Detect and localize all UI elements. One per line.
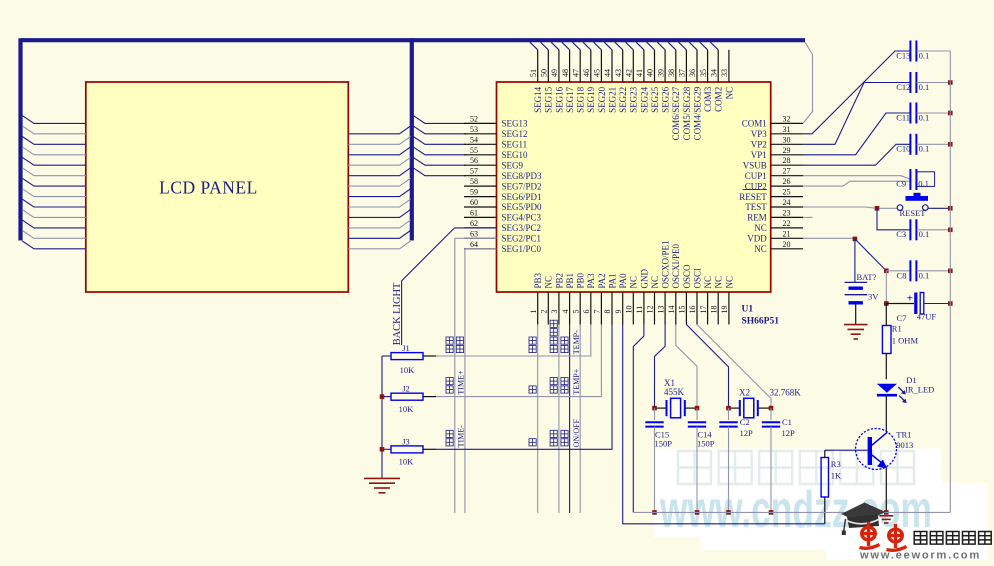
junction J2 left xyxy=(380,394,385,399)
wire VDD pin21 to battery node xyxy=(803,237,855,239)
svg-text:9013: 9013 xyxy=(896,440,913,450)
watermark white panel xyxy=(654,449,942,538)
capacitor C2 12P xyxy=(719,421,737,423)
svg-text:61: 61 xyxy=(470,208,478,217)
svg-text:13: 13 xyxy=(656,306,665,314)
ground at emitter rail xyxy=(879,515,893,517)
wire REM pin23 stub xyxy=(803,216,813,218)
svg-text:RESET: RESET xyxy=(739,192,767,202)
resistor R1 1 OHM xyxy=(882,326,891,354)
svg-text:1 OHM: 1 OHM xyxy=(892,336,919,346)
middle vertical bus xyxy=(410,38,414,240)
capacitor C1 12P xyxy=(762,421,780,423)
svg-text:SEG16: SEG16 xyxy=(554,86,564,113)
resistor J2 10K xyxy=(391,393,423,400)
svg-text:SEG19: SEG19 xyxy=(586,86,596,113)
svg-text:16: 16 xyxy=(688,306,697,314)
junction X2 left xyxy=(726,406,731,411)
svg-text:57: 57 xyxy=(470,167,478,176)
capacitor C15 150P xyxy=(645,421,663,423)
svg-text:43: 43 xyxy=(614,69,623,77)
junction C8 node xyxy=(884,269,889,274)
svg-text:R1: R1 xyxy=(892,324,902,334)
wire C7 to right rail xyxy=(924,303,951,305)
junction C2/rail xyxy=(726,510,731,515)
wire C8 node to C8 xyxy=(886,270,910,272)
svg-text:9: 9 xyxy=(614,310,623,314)
junction C7/rail xyxy=(948,301,953,306)
svg-text:PA2: PA2 xyxy=(597,273,607,288)
LCD panel U2 xyxy=(86,82,349,292)
left vertical bus xyxy=(18,38,22,240)
svg-text:20: 20 xyxy=(783,240,791,249)
right vertical rail xyxy=(949,51,951,512)
svg-text:58: 58 xyxy=(470,177,478,186)
svg-text:45: 45 xyxy=(593,69,602,77)
svg-text:44: 44 xyxy=(603,69,612,77)
svg-text:SEG20: SEG20 xyxy=(597,86,607,113)
wire R3 top to base xyxy=(824,450,826,457)
svg-text:SEG24: SEG24 xyxy=(639,86,649,113)
crystal X2 32.768K xyxy=(729,398,772,418)
svg-text:SEG14: SEG14 xyxy=(533,86,543,113)
wire key row1 from J1 to pin6 xyxy=(436,325,591,357)
wire pin64 column xyxy=(465,249,497,513)
junction C11/rail xyxy=(948,111,953,116)
svg-text:21: 21 xyxy=(783,229,791,238)
wire reset node down to C3 xyxy=(877,208,910,230)
capacitor C8 0.1 xyxy=(909,260,911,281)
svg-text:SEG21: SEG21 xyxy=(607,87,617,113)
svg-text:TEMP-: TEMP- xyxy=(572,330,581,354)
svg-text:TEST: TEST xyxy=(745,202,767,212)
svg-text:42: 42 xyxy=(625,69,634,77)
svg-text:54: 54 xyxy=(470,135,478,144)
battery BAT? 3V xyxy=(845,282,868,302)
junction J3 left xyxy=(380,447,385,452)
svg-text:32: 32 xyxy=(783,114,791,123)
wire BACK_LIGHT from pin62 xyxy=(402,228,497,345)
svg-text:SEG8/PD3: SEG8/PD3 xyxy=(502,171,543,181)
resistor J1 10K xyxy=(391,353,423,360)
svg-text:SEG26: SEG26 xyxy=(661,86,671,113)
capacitor C3 0.1 xyxy=(909,219,911,240)
logo chongchong red characters xyxy=(860,522,907,550)
svg-text:27: 27 xyxy=(783,167,791,176)
svg-text:SEG11: SEG11 xyxy=(502,140,528,150)
op-amp U1 SH66P51 body xyxy=(497,82,771,292)
svg-text:47: 47 xyxy=(571,69,580,77)
svg-text:23: 23 xyxy=(783,208,791,217)
U1 top pin names SEG14-NC xyxy=(533,86,734,140)
svg-text:PB1: PB1 xyxy=(565,273,575,289)
svg-text:SEG17: SEG17 xyxy=(565,86,575,113)
wire GND pin11 jog down to ground rail xyxy=(633,325,644,513)
wire pin5 PB0 column xyxy=(579,325,581,514)
wire J3 right xyxy=(423,448,436,450)
svg-text:35: 35 xyxy=(699,69,708,77)
wire VSUB pin28 to C10 xyxy=(803,144,910,165)
ground below J3 xyxy=(364,477,400,479)
svg-text:30: 30 xyxy=(783,135,791,144)
svg-text:12P: 12P xyxy=(782,428,796,438)
svg-text:NC: NC xyxy=(724,87,734,100)
svg-text:PA1: PA1 xyxy=(607,273,617,288)
top power bus xyxy=(21,38,806,42)
svg-text:25: 25 xyxy=(783,188,791,197)
wire C8 to right rail xyxy=(917,270,951,272)
junction reset node xyxy=(875,206,880,211)
junction C7 node xyxy=(884,301,889,306)
svg-text:5: 5 xyxy=(571,310,580,314)
svg-text:NC: NC xyxy=(724,276,734,289)
svg-text:SEG12: SEG12 xyxy=(502,129,528,139)
svg-text:22: 22 xyxy=(783,219,791,228)
svg-text:OSCXI/PE0: OSCXI/PE0 xyxy=(671,243,681,288)
svg-text:C12: C12 xyxy=(896,82,910,92)
svg-text:48: 48 xyxy=(561,69,570,77)
svg-text:PB3: PB3 xyxy=(533,272,543,288)
svg-text:SEG1/PC0: SEG1/PC0 xyxy=(502,244,542,254)
wire X1 left down to C15 xyxy=(654,408,656,420)
net labels key row2 (oxygen/TIME+/on/economy/updown/TEMP+) xyxy=(446,368,581,394)
svg-text:60: 60 xyxy=(470,198,478,207)
resistor J3 10K xyxy=(391,446,423,453)
svg-text:SEG13: SEG13 xyxy=(502,119,529,129)
wire TEST pin24 to reset button xyxy=(803,207,897,208)
svg-text:NC: NC xyxy=(754,244,767,254)
resistor R3 1K xyxy=(821,458,828,498)
svg-text:PB0: PB0 xyxy=(576,272,586,288)
capacitor C13 0.1 xyxy=(909,41,911,62)
svg-text:TIME-: TIME- xyxy=(456,425,465,448)
wire X1 right down to C14 xyxy=(696,408,698,420)
junction VDD node xyxy=(853,237,858,242)
svg-text:VDD: VDD xyxy=(747,234,767,244)
wire VP3 pin31 to C13 xyxy=(803,51,910,134)
svg-text:64: 64 xyxy=(470,240,478,249)
svg-text:455K: 455K xyxy=(664,387,685,397)
junction C14/rail xyxy=(695,510,700,515)
svg-text:TIME+: TIME+ xyxy=(456,370,465,395)
svg-text:31: 31 xyxy=(783,125,791,134)
wire pin3 PB2 column xyxy=(558,325,560,514)
svg-text:SEG25: SEG25 xyxy=(650,86,660,113)
U1 bottom pin names PB3-NC xyxy=(533,240,734,288)
svg-text:3V: 3V xyxy=(868,291,879,301)
junction C3/rail xyxy=(948,228,953,233)
svg-text:29: 29 xyxy=(783,146,791,155)
svg-text:SEG4/PC3: SEG4/PC3 xyxy=(502,213,542,223)
junction C1/rail xyxy=(769,510,774,515)
svg-text:+: + xyxy=(907,293,913,305)
wire C11 to right rail xyxy=(917,112,951,114)
svg-text:0.1: 0.1 xyxy=(918,179,929,189)
diode D1 IR_LED xyxy=(877,384,907,403)
svg-text:15: 15 xyxy=(678,306,687,314)
svg-text:SEG10: SEG10 xyxy=(502,150,529,160)
svg-text:PA3: PA3 xyxy=(586,273,596,289)
svg-text:COM1: COM1 xyxy=(742,119,767,129)
svg-text:14: 14 xyxy=(667,306,676,314)
svg-text:C8: C8 xyxy=(897,270,907,280)
svg-text:19: 19 xyxy=(720,306,729,314)
svg-text:OSCI: OSCI xyxy=(692,268,702,289)
svg-text:8: 8 xyxy=(603,310,612,314)
wire X2 left down to C2 xyxy=(728,408,730,420)
capacitor C9 0.1 xyxy=(909,169,911,190)
junction C12/rail xyxy=(948,80,953,85)
svg-text:www.eeworm.com: www.eeworm.com xyxy=(859,549,981,561)
svg-text:COM6/SEG27: COM6/SEG27 xyxy=(671,86,681,140)
svg-text:C1: C1 xyxy=(782,417,792,427)
capacitor C14 150P xyxy=(688,421,706,423)
svg-text:SEG22: SEG22 xyxy=(618,87,628,113)
wire C14 to ground rail xyxy=(696,427,698,513)
junction X2 right xyxy=(769,406,774,411)
svg-text:150P: 150P xyxy=(697,439,715,449)
svg-text:COM3: COM3 xyxy=(703,86,713,112)
svg-text:12P: 12P xyxy=(740,428,754,438)
wire COM1 pin32 to top bus xyxy=(803,42,813,123)
svg-text:2: 2 xyxy=(540,310,549,314)
logo text dianzi xiazai zhan (fake hanzi) xyxy=(914,532,991,545)
junction reset/rail xyxy=(948,206,953,211)
svg-text:SEG7/PD2: SEG7/PD2 xyxy=(502,181,542,191)
svg-text:49: 49 xyxy=(550,69,559,77)
svg-text:10: 10 xyxy=(625,306,634,314)
svg-text:PA0: PA0 xyxy=(618,273,628,289)
svg-text:53: 53 xyxy=(470,125,478,134)
svg-text:63: 63 xyxy=(470,229,478,238)
svg-text:28: 28 xyxy=(783,156,791,165)
svg-text:SEG2/PC1: SEG2/PC1 xyxy=(502,234,542,244)
svg-text:SEG18: SEG18 xyxy=(576,86,586,113)
junction X1 left xyxy=(652,406,657,411)
svg-text:41: 41 xyxy=(635,69,644,77)
svg-text:BAT?: BAT? xyxy=(857,272,877,282)
wire PA0 pin9 down to lower rail xyxy=(623,325,825,524)
transistor TR1 9013 xyxy=(856,429,897,470)
svg-text:SEG9: SEG9 xyxy=(502,160,524,170)
svg-text:39: 39 xyxy=(656,69,665,77)
svg-text:R3: R3 xyxy=(831,459,841,469)
svg-text:46: 46 xyxy=(582,69,591,77)
svg-text:IR_LED: IR_LED xyxy=(905,385,934,395)
svg-text:NC: NC xyxy=(544,276,554,289)
svg-text:C2: C2 xyxy=(740,417,750,427)
wire key row3 from J3 to pin8 xyxy=(436,325,612,450)
svg-text:6: 6 xyxy=(582,310,591,314)
wire CUP2 pin26 to C9 xyxy=(803,181,910,186)
wire CUP1 pin27 to C9 xyxy=(803,176,910,180)
wire VDD node diagonal to C8 node xyxy=(855,239,886,271)
wire VDD node down to battery xyxy=(854,239,856,283)
wire group: middle bus to U1 pins 52-57 xyxy=(413,116,466,176)
svg-text:TEMP+: TEMP+ xyxy=(572,368,581,394)
svg-text:0.1: 0.1 xyxy=(919,50,930,60)
wire C10 to right rail xyxy=(917,143,951,145)
svg-text:NC: NC xyxy=(650,276,660,289)
svg-text:SEG15: SEG15 xyxy=(544,86,554,113)
net labels key row1 (fresh/set-time/sleep/run-mode/fan/TEMP-) xyxy=(446,320,581,354)
svg-text:1: 1 xyxy=(529,310,538,314)
svg-text:BACK LIGHT: BACK LIGHT xyxy=(392,282,403,345)
svg-text:34: 34 xyxy=(709,69,718,77)
wire X2 right down to C1 xyxy=(770,408,772,420)
svg-text:OSCXO/PE1: OSCXO/PE1 xyxy=(661,240,671,288)
svg-text:J3: J3 xyxy=(402,436,410,446)
U1 right pin stubs 32-20 with pin numbers xyxy=(771,114,803,248)
ground rail horizontal xyxy=(633,511,950,513)
svg-text:VP3: VP3 xyxy=(751,129,768,139)
svg-text:VP2: VP2 xyxy=(751,140,767,150)
capacitor C10 0.1 xyxy=(909,134,911,155)
svg-text:40: 40 xyxy=(646,69,655,77)
svg-text:NC: NC xyxy=(703,276,713,289)
push button RESET xyxy=(897,193,928,211)
net labels key row3 (antimold/TIME-/off/strong/leftright/ONOFF) xyxy=(446,418,581,447)
svg-text:38: 38 xyxy=(667,69,676,77)
wire TR1 emitter down to ground rail xyxy=(885,469,887,513)
svg-text:11: 11 xyxy=(635,306,644,314)
svg-text:26: 26 xyxy=(783,177,791,186)
svg-text:12: 12 xyxy=(646,306,655,314)
svg-text:J2: J2 xyxy=(402,384,410,394)
svg-text:0.1: 0.1 xyxy=(919,144,930,154)
svg-text:C7: C7 xyxy=(897,313,907,323)
U1 left pin stubs 52-64 with pin numbers xyxy=(464,114,497,248)
U1 left pin names SEG13-SEG1/PC0 xyxy=(502,119,543,254)
svg-text:18: 18 xyxy=(709,306,718,314)
wire J2 right xyxy=(423,396,436,398)
svg-text:VSUB: VSUB xyxy=(743,160,767,170)
wire pin14 to X1 right xyxy=(676,325,697,409)
svg-text:NC: NC xyxy=(754,223,767,233)
svg-text:SH66P51: SH66P51 xyxy=(742,317,780,327)
svg-text:1K: 1K xyxy=(831,471,842,481)
svg-text:COM4/SEG29: COM4/SEG29 xyxy=(692,86,702,140)
svg-text:X2: X2 xyxy=(739,388,750,398)
wire key row2 from J2 to pin7 xyxy=(436,325,601,397)
crystal X1 455K xyxy=(655,398,698,418)
wire D1 to TR1 collector xyxy=(885,395,887,431)
svg-text:REM: REM xyxy=(747,213,767,223)
svg-text:NC: NC xyxy=(629,276,639,289)
svg-text:SEG3/PC2: SEG3/PC2 xyxy=(502,223,542,233)
svg-text:D1: D1 xyxy=(906,375,916,385)
svg-text:10K: 10K xyxy=(399,457,415,467)
U1 top pin stubs 51-33 with bus taps and numbers xyxy=(529,42,729,82)
svg-text:62: 62 xyxy=(470,219,478,228)
wire R3 bottom to PA0 rail xyxy=(824,497,826,524)
wire C7 node down to R1 xyxy=(885,304,887,326)
svg-text:3: 3 xyxy=(550,310,559,314)
junction C15/rail xyxy=(652,510,657,515)
wire pin4 PB1 column xyxy=(569,325,571,514)
svg-text:C3: C3 xyxy=(896,229,906,239)
U1 right pin names COM1-NC xyxy=(739,119,767,254)
svg-text:17: 17 xyxy=(699,306,708,314)
svg-text:33: 33 xyxy=(720,69,729,77)
wire C1 to ground rail xyxy=(770,427,772,513)
svg-text:LCD PANEL: LCD PANEL xyxy=(159,178,258,198)
svg-text:SEG23: SEG23 xyxy=(629,86,639,113)
svg-text:36: 36 xyxy=(688,69,697,77)
wire C15 to ground rail xyxy=(654,427,656,513)
svg-text:56: 56 xyxy=(470,156,478,165)
wire pin16 to X2 right xyxy=(697,325,771,409)
svg-text:RESET: RESET xyxy=(900,208,927,218)
svg-text:C11: C11 xyxy=(896,112,910,122)
junction C10/rail xyxy=(948,142,953,147)
junction emitter/ground rail xyxy=(884,510,889,515)
wire battery to ground xyxy=(855,303,857,324)
svg-text:VP1: VP1 xyxy=(751,150,767,160)
svg-text:52: 52 xyxy=(470,114,478,123)
svg-text:CUP1: CUP1 xyxy=(745,171,767,181)
svg-text:55: 55 xyxy=(470,146,478,155)
wire pin13 to X1 left xyxy=(655,325,666,409)
capacitor C11 0.1 xyxy=(909,103,911,124)
wire C8 node down to C7 node xyxy=(885,271,887,304)
svg-text:C10: C10 xyxy=(896,144,910,154)
svg-text:PB2: PB2 xyxy=(554,273,564,289)
svg-text:150P: 150P xyxy=(655,439,673,449)
wire J1 right xyxy=(423,355,436,357)
U1 bottom pin stubs 1-19 with numbers xyxy=(529,292,729,325)
svg-text:TR1: TR1 xyxy=(896,430,911,440)
svg-text:47UF: 47UF xyxy=(917,312,937,322)
svg-text:37: 37 xyxy=(678,69,687,77)
ground below battery xyxy=(844,324,868,326)
wire C7 node to C7 xyxy=(886,303,914,305)
logo graduation cap xyxy=(841,503,886,536)
wire C13 to right rail xyxy=(917,50,951,52)
svg-text:COM2: COM2 xyxy=(714,87,724,112)
svg-text:0.1: 0.1 xyxy=(919,270,930,280)
junction C8/rail xyxy=(948,269,953,274)
wire reset button to right rail xyxy=(928,207,950,209)
wire VP2 pin30 to C12 xyxy=(803,83,910,145)
wire C2 to ground rail xyxy=(728,427,730,513)
svg-text:10K: 10K xyxy=(400,365,416,375)
wire R1 to D1 xyxy=(885,354,887,380)
svg-text:0.1: 0.1 xyxy=(919,112,930,122)
svg-text:0.1: 0.1 xyxy=(919,82,930,92)
capacitor C12 0.1 xyxy=(909,72,911,93)
svg-text:OSCO: OSCO xyxy=(682,264,692,289)
svg-text:SEG6/PD1: SEG6/PD1 xyxy=(502,192,542,202)
svg-text:COM5/SEG28: COM5/SEG28 xyxy=(682,86,692,140)
wire pin1 PB3 column xyxy=(537,325,539,514)
svg-text:GND: GND xyxy=(639,269,649,289)
wire pin63 column xyxy=(455,238,497,513)
svg-text:SEG5/PD0: SEG5/PD0 xyxy=(502,202,543,212)
svg-text:7: 7 xyxy=(593,310,602,314)
svg-text:J1: J1 xyxy=(402,343,410,353)
capacitor C7 47UF electrolytic xyxy=(907,293,924,315)
wire C12 to right rail xyxy=(917,82,951,84)
svg-text:32.768K: 32.768K xyxy=(770,388,802,398)
svg-text:4: 4 xyxy=(561,310,570,314)
svg-text:10K: 10K xyxy=(399,404,415,414)
wire group: LCD right pins to middle bus xyxy=(348,126,410,249)
watermark text row1 (fake hanzi) xyxy=(678,451,711,484)
wire TR1 base xyxy=(825,449,868,451)
svg-text:U1: U1 xyxy=(742,305,754,315)
wire pin15 to X2 left xyxy=(686,325,728,409)
